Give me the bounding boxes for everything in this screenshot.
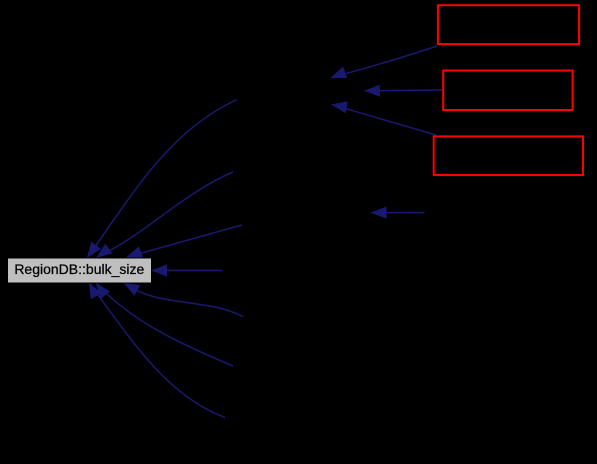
svg-text:RegionDB::bulk_size: RegionDB::bulk_size	[14, 261, 144, 277]
node R2: red box middle right	[443, 71, 572, 111]
edge caller2 -> RegionDB::bulk_size	[97, 172, 233, 257]
edge caller3 -> RegionDB::bulk_size	[127, 225, 242, 257]
edge caller5 -> RegionDB::bulk_size	[125, 283, 244, 316]
edge caller7 -> RegionDB::bulk_size (bottom arc)	[89, 283, 225, 417]
edge red-node-3 -> caller1	[332, 102, 436, 135]
edge grandcaller -> caller3 (short horizontal)	[372, 207, 425, 218]
node RegionDB::bulk_size (current node, grey fill)	[8, 258, 152, 283]
edge red-node-2 -> caller1 (horizontal)	[365, 85, 442, 96]
edge red-node-1 -> caller1	[331, 46, 437, 78]
edge caller1 -> RegionDB::bulk_size (long top arc)	[88, 100, 238, 258]
edge caller6 -> RegionDB::bulk_size	[96, 284, 233, 367]
node R1: red box top right	[438, 5, 579, 44]
edge caller4 -> RegionDB::bulk_size (horizontal)	[152, 265, 222, 276]
node R3: red box lower right	[434, 136, 583, 175]
